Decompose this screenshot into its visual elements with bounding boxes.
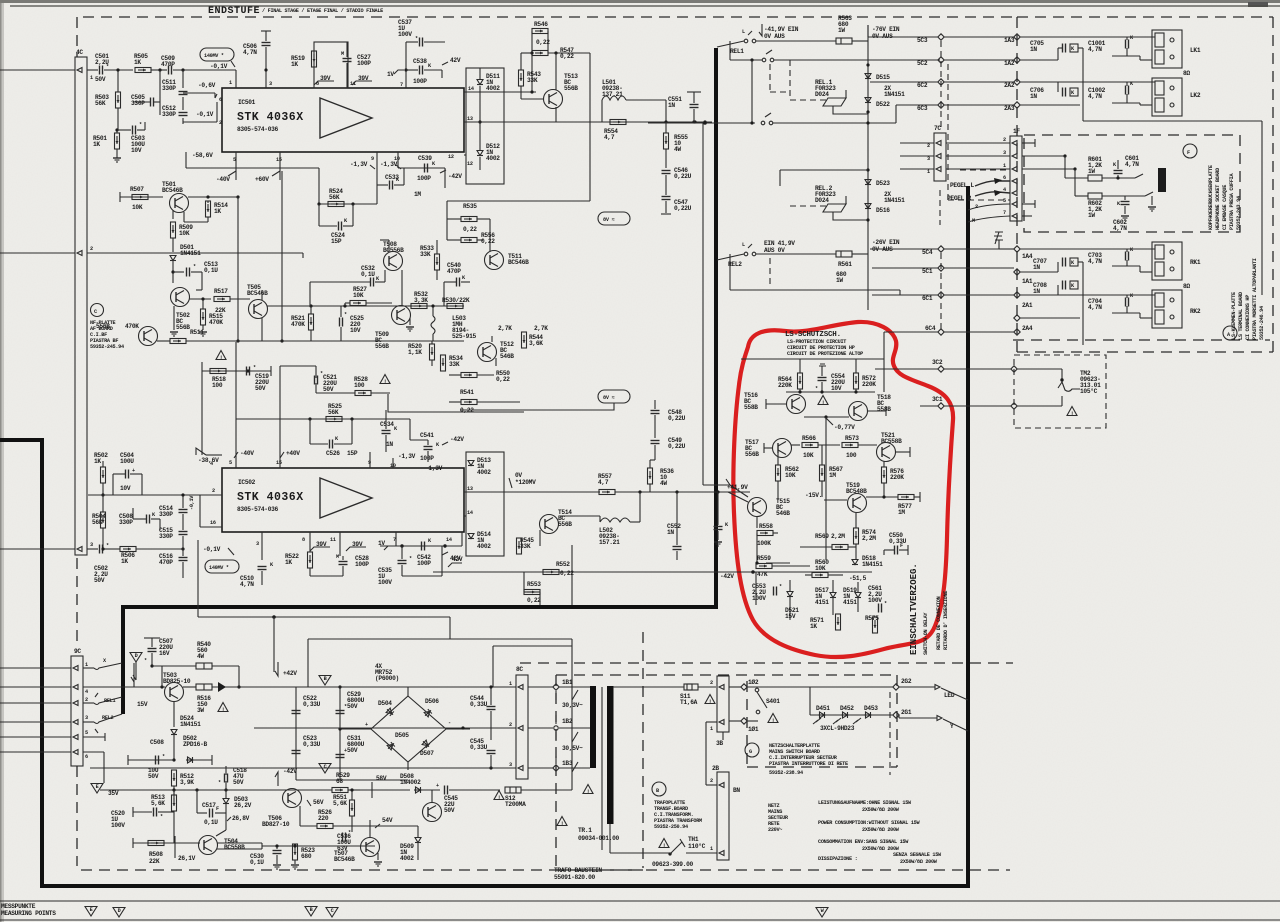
capacitor C522 xyxy=(292,711,301,714)
wire xyxy=(422,789,440,791)
wire xyxy=(994,232,1003,240)
svg-text:16: 16 xyxy=(210,520,216,526)
wire xyxy=(447,218,461,220)
wire xyxy=(883,550,885,555)
svg-text:59352-238.94: 59352-238.94 xyxy=(769,770,803,776)
svg-text:2X50W/8Ω 200W: 2X50W/8Ω 200W xyxy=(862,827,900,833)
svg-text:*: * xyxy=(884,601,887,607)
svg-text:50V: 50V xyxy=(444,807,455,814)
L502 under xyxy=(600,518,630,522)
svg-text:*: * xyxy=(344,312,347,318)
svg-text:330P: 330P xyxy=(119,519,133,526)
svg-text:HEADPHONE SOCKET BOARD: HEADPHONE SOCKET BOARD xyxy=(1215,168,1221,230)
svg-text:0,33U: 0,33U xyxy=(470,744,488,751)
resistor R560 xyxy=(812,573,828,578)
wire xyxy=(340,728,371,730)
capacitor R521 xyxy=(340,318,343,327)
wire xyxy=(601,100,603,122)
svg-text:0,33U: 0,33U xyxy=(303,701,321,708)
measuring point xyxy=(113,908,125,918)
svg-text:REL1: REL1 xyxy=(730,48,744,55)
wire xyxy=(83,686,124,688)
svg-text:1N4002: 1N4002 xyxy=(400,779,421,786)
svg-text:1B3: 1B3 xyxy=(562,760,573,767)
wire xyxy=(729,686,741,688)
svg-text:15: 15 xyxy=(276,157,282,163)
transistor R544 xyxy=(478,343,497,362)
wire xyxy=(152,665,196,667)
wire xyxy=(407,762,409,770)
wire xyxy=(401,565,403,576)
svg-text:LS TERMINAL BOARD: LS TERMINAL BOARD xyxy=(1238,292,1244,340)
wire xyxy=(444,281,456,283)
transistor T516 xyxy=(849,402,868,421)
right connector panel bottom xyxy=(870,121,1265,417)
wire xyxy=(824,499,847,501)
wire xyxy=(173,735,175,760)
warning symbol xyxy=(768,714,778,724)
svg-text:13: 13 xyxy=(467,486,473,492)
svg-text:100P: 100P xyxy=(417,175,431,182)
capacitor R505 xyxy=(151,69,167,71)
svg-text:R573: R573 xyxy=(845,435,859,442)
resistor R552 xyxy=(543,570,559,575)
pin arrow xyxy=(719,783,724,788)
svg-text:12: 12 xyxy=(467,161,473,167)
capacitor C528 xyxy=(398,561,407,564)
svg-text:4151: 4151 xyxy=(815,599,829,606)
svg-text:+60V: +60V xyxy=(255,176,269,183)
wire xyxy=(1078,261,1083,263)
wire xyxy=(571,639,573,790)
measuring point xyxy=(319,764,331,774)
svg-text:T200MA: T200MA xyxy=(505,801,526,808)
svg-text:1N4151: 1N4151 xyxy=(862,561,883,568)
capacitor C520 xyxy=(154,808,157,817)
wire xyxy=(261,290,263,300)
wire xyxy=(464,515,466,517)
wire xyxy=(461,532,463,546)
svg-text:1N4151: 1N4151 xyxy=(884,91,905,98)
wire xyxy=(206,454,222,456)
svg-text:2A2: 2A2 xyxy=(1004,82,1015,89)
wire xyxy=(763,443,765,453)
svg-text:10K: 10K xyxy=(132,204,143,211)
svg-text:D506: D506 xyxy=(425,698,439,705)
svg-text:3,9K: 3,9K xyxy=(180,779,194,786)
svg-text:4W: 4W xyxy=(674,146,681,153)
svg-text:59352-250.94: 59352-250.94 xyxy=(654,824,688,830)
svg-text:56K: 56K xyxy=(95,100,106,107)
capacitor C519 xyxy=(315,376,318,385)
wire xyxy=(609,824,611,853)
wire xyxy=(1020,317,1080,319)
svg-text:10V: 10V xyxy=(831,385,842,392)
svg-text:BD825-10: BD825-10 xyxy=(163,678,191,685)
svg-text:F: F xyxy=(1187,150,1190,156)
transistor T521 xyxy=(877,443,896,462)
wire xyxy=(128,759,174,761)
svg-text:R552: R552 xyxy=(556,561,570,568)
capacitor IC502 xyxy=(258,567,267,570)
wire xyxy=(460,403,614,410)
warning symbol xyxy=(705,695,715,705)
diode D519 xyxy=(855,593,861,598)
svg-text:LK2: LK2 xyxy=(1190,92,1201,99)
svg-text:LEISTUNGSAUFNAHME:OHNE SIGNAL: LEISTUNGSAUFNAHME:OHNE SIGNAL 15W xyxy=(818,800,912,806)
wire xyxy=(702,123,704,485)
wire xyxy=(388,240,390,252)
svg-text:8: 8 xyxy=(316,81,319,87)
svg-text:C539: C539 xyxy=(418,155,432,162)
svg-text:0V AUS: 0V AUS xyxy=(764,33,785,40)
wire xyxy=(809,687,811,715)
svg-text:C508: C508 xyxy=(150,739,164,746)
svg-text:PIASTRA INTERRUTTORE DI RETE: PIASTRA INTERRUTTORE DI RETE xyxy=(769,761,848,767)
diode D508 xyxy=(414,787,422,793)
svg-text:100P: 100P xyxy=(420,455,434,462)
svg-text:56K: 56K xyxy=(328,409,339,416)
resistor R533 xyxy=(435,254,440,270)
wire xyxy=(705,722,707,785)
capacitor C536 xyxy=(343,833,346,842)
wire xyxy=(477,401,520,403)
svg-text:1: 1 xyxy=(710,726,713,732)
wire xyxy=(520,86,522,99)
wire xyxy=(88,494,200,496)
wire xyxy=(280,365,316,367)
svg-text:50V: 50V xyxy=(233,779,244,786)
wire xyxy=(730,289,900,291)
capacitor C552 xyxy=(673,547,682,550)
svg-text:100U: 100U xyxy=(120,458,134,465)
svg-text:8305-574-036: 8305-574-036 xyxy=(237,126,279,133)
svg-text:PEGEL L: PEGEL L xyxy=(950,182,974,189)
wire xyxy=(665,175,667,195)
svg-text:+: + xyxy=(365,722,368,728)
wire xyxy=(555,691,557,700)
capacitor D501 xyxy=(173,271,184,273)
capacitor C541 xyxy=(424,447,433,450)
wire xyxy=(883,461,885,467)
svg-text:2: 2 xyxy=(90,246,93,252)
wire xyxy=(352,825,418,827)
svg-text:+41,9V: +41,9V xyxy=(727,484,748,491)
svg-text:3XCL-9HD23: 3XCL-9HD23 xyxy=(820,725,855,732)
svg-text:2A4: 2A4 xyxy=(1022,325,1033,332)
pin arrow xyxy=(1012,179,1017,184)
capacitor C530 xyxy=(273,851,282,854)
wire xyxy=(717,41,744,47)
wire xyxy=(780,169,868,171)
svg-text:LK1: LK1 xyxy=(1190,47,1201,54)
wire xyxy=(417,826,419,837)
svg-text:R553: R553 xyxy=(527,581,541,588)
svg-text:C534: C534 xyxy=(380,421,394,428)
resistor R558 xyxy=(757,531,773,536)
svg-text:8: 8 xyxy=(302,537,305,543)
svg-text:C538: C538 xyxy=(413,58,427,65)
wire xyxy=(539,530,541,546)
svg-text:D451: D451 xyxy=(816,705,830,712)
svg-text:5C2: 5C2 xyxy=(917,60,928,67)
svg-text:35V: 35V xyxy=(108,790,119,797)
svg-text:3: 3 xyxy=(85,715,88,721)
svg-text:0,22: 0,22 xyxy=(496,376,510,383)
pin arrow xyxy=(719,720,724,725)
wire xyxy=(397,152,399,168)
wire xyxy=(113,473,125,475)
power supply area xyxy=(91,638,593,869)
wire xyxy=(868,410,886,412)
wire xyxy=(773,122,896,124)
svg-text:100P: 100P xyxy=(355,561,369,568)
wire xyxy=(431,790,433,802)
svg-text:R558: R558 xyxy=(759,523,773,530)
wire xyxy=(83,736,105,738)
svg-text:59352-246.94: 59352-246.94 xyxy=(1259,306,1265,340)
wire xyxy=(870,248,938,250)
svg-text:10K: 10K xyxy=(815,565,826,572)
svg-text:0,22U: 0,22U xyxy=(674,205,692,212)
transistor S12 xyxy=(283,789,302,808)
wires into 8C xyxy=(296,686,516,688)
svg-text:2,2M: 2,2M xyxy=(862,535,876,542)
dashes xyxy=(769,64,771,92)
svg-text:TH1: TH1 xyxy=(688,836,699,843)
ground xyxy=(173,306,175,330)
resistor R535 xyxy=(461,217,477,222)
svg-text:D024: D024 xyxy=(815,197,829,204)
svg-text:4,7: 4,7 xyxy=(598,479,609,486)
svg-text:3W: 3W xyxy=(197,707,204,714)
svg-text:9: 9 xyxy=(371,156,374,162)
2G2 2G1 LED wires xyxy=(899,686,935,688)
svg-text:4: 4 xyxy=(210,461,213,467)
svg-text:MESSPUNKTE: MESSPUNKTE xyxy=(1,903,36,910)
svg-text:CI CONNEXIONS HP: CI CONNEXIONS HP xyxy=(1245,295,1251,340)
diode D524 xyxy=(171,730,177,735)
capacitor C507 xyxy=(148,649,157,652)
svg-text:R508: R508 xyxy=(149,851,163,858)
capacitor C545 xyxy=(445,786,448,795)
transistor T508 xyxy=(384,252,403,271)
ground xyxy=(202,325,204,330)
svg-text:L: L xyxy=(742,29,745,35)
svg-text:B: B xyxy=(310,907,313,913)
pin arrow xyxy=(77,547,82,552)
capacitor C533 xyxy=(377,184,388,186)
wire xyxy=(895,451,910,453)
resistor R559 xyxy=(756,564,772,569)
svg-text:470P: 470P xyxy=(159,559,173,566)
warning symbol xyxy=(659,839,669,849)
svg-text:RK1: RK1 xyxy=(1190,259,1201,266)
svg-text:DISSIPAZIONE :: DISSIPAZIONE : xyxy=(818,856,857,862)
pin arrow xyxy=(0,721,71,723)
wire xyxy=(464,491,600,493)
svg-text:REL1: REL1 xyxy=(104,698,115,704)
svg-text:1A4: 1A4 xyxy=(1022,253,1033,260)
resistor R502 xyxy=(101,467,106,483)
svg-text:556B: 556B xyxy=(96,323,110,330)
svg-text:4002: 4002 xyxy=(400,855,414,862)
svg-text:2B: 2B xyxy=(712,765,719,772)
svg-text:STK 4036X: STK 4036X xyxy=(237,111,304,124)
wire xyxy=(136,548,183,550)
wire xyxy=(0,919,1280,921)
svg-text:PIASTRA MORSETTI ALTOPARLANTI: PIASTRA MORSETTI ALTOPARLANTI xyxy=(1252,258,1258,340)
measuring point xyxy=(130,653,142,663)
svg-text:TRAFO-BAUSTEIN: TRAFO-BAUSTEIN xyxy=(554,867,602,874)
capacitor C546 xyxy=(662,171,671,174)
wire xyxy=(183,686,196,688)
svg-text:4,7: 4,7 xyxy=(604,134,615,141)
wire xyxy=(872,267,938,269)
resistor R515 xyxy=(201,309,206,325)
wire xyxy=(201,272,203,290)
svg-text:0,22: 0,22 xyxy=(560,53,574,60)
svg-text:1W: 1W xyxy=(1088,212,1095,219)
wire xyxy=(810,714,893,716)
capacitor C549 xyxy=(651,441,660,444)
wire xyxy=(613,686,684,688)
wire xyxy=(779,686,893,688)
diode T507 xyxy=(386,741,396,751)
svg-text:0,1U: 0,1U xyxy=(204,267,218,274)
svg-text:330P: 330P xyxy=(159,511,173,518)
svg-text:5C1: 5C1 xyxy=(922,268,933,275)
svg-text:2,7K: 2,7K xyxy=(534,325,548,332)
svg-text:-51,5: -51,5 xyxy=(849,575,867,582)
wire xyxy=(395,532,397,546)
transformer / mains xyxy=(90,666,968,881)
svg-text:4002: 4002 xyxy=(477,469,491,476)
svg-text:MEASURING POINTS: MEASURING POINTS xyxy=(1,910,56,917)
svg-text:33K: 33K xyxy=(449,361,460,368)
svg-text:AUS 0V: AUS 0V xyxy=(764,247,785,254)
svg-text:IC502: IC502 xyxy=(238,479,256,486)
svg-text:BC546B: BC546B xyxy=(162,187,183,194)
svg-text:2X50W/8Ω 200W: 2X50W/8Ω 200W xyxy=(862,807,900,813)
svg-text:8Ω: 8Ω xyxy=(1183,70,1190,77)
wire xyxy=(0,69,75,71)
svg-text:*: * xyxy=(139,122,142,128)
svg-text:50V: 50V xyxy=(95,76,106,83)
svg-text:BC546B: BC546B xyxy=(334,856,355,863)
svg-text:33K: 33K xyxy=(420,251,431,258)
wire xyxy=(254,727,516,729)
svg-text:1,1K: 1,1K xyxy=(408,349,422,356)
wire xyxy=(265,47,267,88)
wire xyxy=(449,617,451,639)
wire xyxy=(260,686,290,688)
transistor T519 xyxy=(848,494,867,513)
svg-text:220V~: 220V~ xyxy=(768,827,782,833)
pin arrow xyxy=(1012,141,1017,146)
svg-text:3: 3 xyxy=(509,762,512,768)
wire xyxy=(687,91,701,93)
svg-text:RETARD DE CONNEXION: RETARD DE CONNEXION xyxy=(936,596,942,650)
svg-text:D024: D024 xyxy=(815,91,829,98)
svg-text:4002: 4002 xyxy=(477,543,491,550)
wire xyxy=(1020,248,1155,250)
transistor C541 xyxy=(139,327,158,346)
wire xyxy=(572,690,578,772)
wire xyxy=(230,298,250,300)
svg-text:1: 1 xyxy=(1003,163,1006,169)
svg-text:+40V: +40V xyxy=(286,450,300,457)
svg-text:KOPFHOERERBUCHSENPLATTE: KOPFHOERERBUCHSENPLATTE xyxy=(1208,165,1214,230)
pin arrow xyxy=(1012,191,1017,196)
wire xyxy=(1261,121,1263,295)
svg-text:470P: 470P xyxy=(161,61,175,68)
wire xyxy=(281,171,283,341)
svg-text:1N: 1N xyxy=(1030,46,1037,53)
svg-text:680: 680 xyxy=(301,853,312,860)
svg-text:1N4151: 1N4151 xyxy=(180,721,201,728)
svg-text:R535: R535 xyxy=(463,203,477,210)
wire xyxy=(1022,168,1075,170)
capacitor C704 xyxy=(1126,298,1129,307)
wire xyxy=(914,496,920,498)
pin arrow xyxy=(1012,214,1017,219)
wire xyxy=(490,711,492,740)
diode D451 xyxy=(818,712,826,718)
resistor R522 xyxy=(308,552,313,568)
wire xyxy=(388,394,524,412)
wire xyxy=(202,370,271,372)
wire xyxy=(766,562,790,564)
svg-text:100V: 100V xyxy=(868,597,882,604)
wire xyxy=(318,168,320,204)
capacitor C508 xyxy=(156,756,159,765)
IC501 STK4036X xyxy=(186,19,464,204)
svg-text:B: B xyxy=(656,788,659,794)
svg-text:5,6K: 5,6K xyxy=(151,800,165,807)
svg-text:TR.1: TR.1 xyxy=(578,827,592,834)
resistor R508 xyxy=(148,841,164,846)
diode D522 xyxy=(865,98,871,103)
wire xyxy=(772,565,810,567)
wire xyxy=(133,842,200,844)
resistor R562 xyxy=(776,465,781,481)
svg-text:-41,9V EIN: -41,9V EIN xyxy=(764,26,799,33)
resistor R527 xyxy=(350,301,366,306)
svg-text:1W: 1W xyxy=(838,27,845,34)
svg-text:100P: 100P xyxy=(413,78,427,85)
svg-text:100: 100 xyxy=(212,382,223,389)
svg-text:100P: 100P xyxy=(417,560,431,567)
wire xyxy=(560,515,600,517)
svg-text:3: 3 xyxy=(90,542,93,548)
resistor R519 xyxy=(312,51,317,67)
svg-text:110°C: 110°C xyxy=(688,843,706,850)
wire xyxy=(524,571,543,573)
svg-text:1K: 1K xyxy=(121,558,128,565)
wire xyxy=(403,168,405,185)
capacitor C508 xyxy=(147,515,150,524)
wire xyxy=(279,152,281,180)
wire xyxy=(339,532,341,556)
node xyxy=(893,684,899,690)
svg-text:+: + xyxy=(344,748,347,754)
wire xyxy=(1140,59,1152,61)
svg-text:10V: 10V xyxy=(350,327,361,334)
svg-text:*: * xyxy=(348,830,351,836)
wire xyxy=(665,122,667,133)
wire xyxy=(0,548,75,550)
